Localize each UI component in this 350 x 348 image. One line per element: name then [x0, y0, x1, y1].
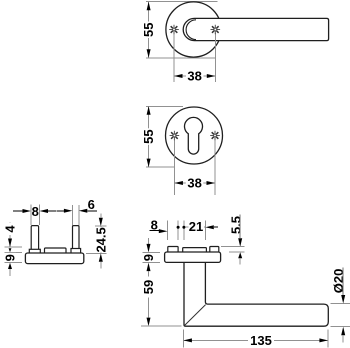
svg-text:9: 9: [3, 254, 18, 261]
svg-text:55: 55: [141, 22, 156, 36]
svg-text:59: 59: [141, 280, 156, 294]
svg-text:55: 55: [141, 129, 156, 143]
svg-text:135: 135: [250, 333, 272, 348]
svg-text:24.5: 24.5: [93, 227, 108, 252]
svg-text:8: 8: [32, 204, 39, 219]
svg-text:9: 9: [141, 254, 156, 261]
svg-text:4: 4: [3, 225, 18, 233]
svg-text:5.5: 5.5: [229, 216, 244, 234]
svg-text:38: 38: [187, 69, 201, 84]
svg-text:6: 6: [88, 197, 95, 212]
svg-text:21: 21: [189, 219, 203, 234]
svg-text:Ø20: Ø20: [331, 269, 346, 294]
svg-text:38: 38: [187, 176, 201, 191]
